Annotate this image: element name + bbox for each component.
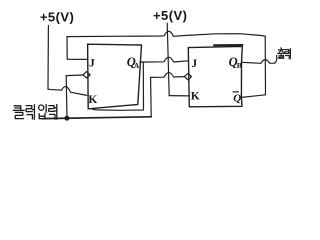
label output 출력 drawn glyphs <box>278 48 291 59</box>
wire clock horizontal into FF A clock diamond <box>66 74 83 77</box>
svg-text:J: J <box>191 58 197 70</box>
svg-text:K: K <box>191 91 200 103</box>
flip-flop A box <box>88 44 142 109</box>
glyph 클 <box>14 106 21 110</box>
clock input diamond FF A <box>83 72 90 78</box>
wire clock horizontal into FF B diamond with hop over +5V lead 2 <box>151 73 185 78</box>
wire +5V lead 2 down to K input of FF B <box>167 23 169 95</box>
wire K input FF B <box>169 95 188 97</box>
flip-flop B box <box>188 46 242 106</box>
svg-text:B: B <box>237 61 242 70</box>
svg-text:K: K <box>88 94 97 106</box>
wire Q A branch wrapping under FF A box <box>92 62 144 110</box>
wire feedback vertical down right side <box>264 36 266 95</box>
glyph 력 <box>285 49 289 53</box>
wire clock vertical to FF B <box>150 77 153 116</box>
svg-text:J: J <box>89 58 95 70</box>
glyph 출 <box>278 48 284 53</box>
glyph 력 <box>49 106 55 112</box>
svg-text:A: A <box>134 61 140 70</box>
wire clock vertical to FF A <box>65 76 68 119</box>
svg-text:Q: Q <box>233 92 241 104</box>
svg-text:+5(V): +5(V) <box>153 8 187 23</box>
clock input diamond FF B <box>184 73 191 79</box>
wire +5V lead 1 down to K input of FF A <box>47 26 49 90</box>
svg-text:+5(V): +5(V) <box>40 9 74 24</box>
node clock junction dot <box>64 116 69 121</box>
wire feedback rail from Q-bar B to J A with hop over +5V lead 2 <box>67 31 265 36</box>
glyph 입 <box>39 105 44 110</box>
wire J input FF A from feedback rail <box>67 37 87 60</box>
wire K input FF A with hop over clock wire <box>48 87 87 96</box>
wire Q-bar B output to feedback <box>242 95 266 98</box>
output terminal hook <box>275 56 277 64</box>
label clock input 클럭입력 drawn glyphs <box>13 104 57 119</box>
wire clock bus along bottom <box>43 117 151 119</box>
wire Q A to J B with hop over +5V lead 2 <box>140 57 188 62</box>
retrace stroke on FF B top edge <box>214 44 242 46</box>
glyph 럭 <box>26 106 32 112</box>
wire Q B output to output terminal with hop over feedback vertical <box>242 60 275 64</box>
